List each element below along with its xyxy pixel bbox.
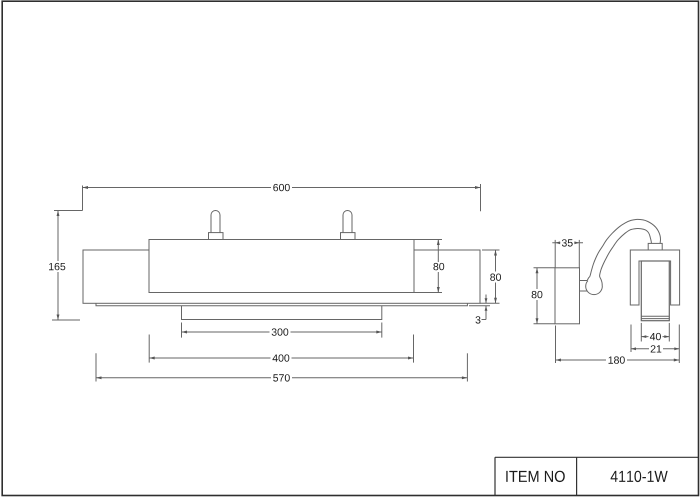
front shade box — [149, 240, 414, 293]
socket 2 base — [341, 233, 356, 240]
socket 1 stem — [211, 211, 220, 233]
dim 80 outer ext top — [482, 249, 500, 251]
dim 165 ext bottom — [52, 319, 80, 321]
title block — [495, 457, 699, 495]
dim 21 ext left — [630, 325, 632, 353]
dim 35 ext left — [554, 240, 556, 268]
dim 600 ext left — [82, 186, 84, 211]
label 400 — [273, 354, 290, 361]
dim 80 side ext bottom — [534, 323, 556, 325]
arrow 300 right — [376, 331, 382, 334]
arrowheads — [57, 186, 680, 379]
label 80 side — [532, 291, 543, 298]
dim 165 line — [57, 211, 59, 321]
dim 300 line — [182, 331, 382, 333]
arrow 80i down — [437, 287, 440, 293]
label 165 — [49, 263, 65, 270]
arrow 400 left — [149, 357, 155, 360]
arrow 165 down — [57, 315, 60, 321]
dim 180 line — [556, 359, 680, 361]
dim 600 ext right — [480, 184, 482, 211]
dim 3 arrow lines — [482, 295, 487, 320]
socket 2 stem — [343, 211, 352, 233]
wall plate — [555, 268, 580, 324]
label 600 — [273, 184, 290, 191]
dim 400 line — [149, 357, 413, 359]
ball joint — [586, 278, 603, 295]
dim 40 ext right — [668, 323, 670, 342]
arrow 80o down — [494, 298, 497, 304]
arrow 3 down — [485, 298, 488, 303]
label 21 — [651, 345, 662, 352]
dim 80 inner line — [437, 240, 439, 293]
arrow 165 up — [57, 211, 60, 217]
label 80 outer — [490, 274, 501, 281]
diffuser strip below backplate — [96, 303, 467, 305]
dim 400 ext left — [148, 335, 150, 363]
label ITEM NO — [506, 471, 565, 482]
joint neck — [580, 281, 589, 292]
dim 165 ext top — [54, 210, 83, 212]
dim 80 outer ext bottom — [480, 302, 500, 304]
dim 80 side ext top — [534, 267, 556, 269]
label 3 — [476, 316, 481, 323]
label 40 — [650, 333, 661, 340]
arrow 80s up — [536, 268, 539, 274]
arrow 35 left — [555, 241, 560, 244]
label 180 — [609, 356, 625, 363]
arm tube — [587, 219, 660, 284]
cylinder rim lines — [641, 316, 669, 318]
dim 80 inner ext top — [415, 239, 443, 241]
dim 21 ext right — [678, 325, 680, 364]
arrow 40 right — [664, 335, 669, 338]
arrow 600 left — [83, 186, 89, 189]
dim 570 ext right — [466, 353, 468, 381]
label 4110-1W — [611, 471, 668, 482]
wall backplate — [83, 250, 480, 303]
dim 40 line — [641, 336, 669, 338]
arrow 400 right — [408, 357, 414, 360]
arrow 300 left — [182, 331, 188, 334]
label 80 inner — [433, 263, 444, 270]
arrow 80i up — [437, 240, 440, 246]
dimension texts with white backing — [47, 182, 663, 383]
arrow 180 right — [674, 359, 680, 362]
arrow 35 right — [574, 241, 579, 244]
dim 570 line — [96, 377, 467, 379]
dim 570 ext left — [95, 353, 97, 381]
arrow 570 right — [462, 376, 468, 379]
dim 21 line — [631, 348, 679, 350]
label 570 — [273, 374, 290, 381]
arrow 80o up — [494, 250, 497, 256]
dim 40 ext left — [640, 323, 642, 342]
dim 400 ext right — [413, 335, 415, 363]
label 35 — [562, 239, 573, 246]
bottom center piece — [182, 306, 382, 320]
dim 300 ext right — [381, 323, 383, 338]
arrow 600 right — [475, 186, 481, 189]
head bracket — [630, 250, 679, 305]
dim 80 inner ext bottom — [415, 292, 443, 294]
arrow 40 left — [641, 335, 646, 338]
head stem — [648, 243, 662, 250]
dim 600 line — [83, 187, 481, 189]
head cylinder — [641, 261, 669, 321]
arrow 21 right — [674, 347, 679, 350]
socket 1 base — [209, 233, 224, 240]
dim 180 ext left — [555, 326, 557, 364]
dim 3 ext bottom — [469, 305, 490, 307]
arrow 180 left — [556, 359, 562, 362]
arrow 3 up — [485, 306, 488, 311]
dim 35 line — [552, 242, 583, 244]
dim 35 ext right — [578, 240, 580, 268]
dim 300 ext left — [181, 323, 183, 338]
arrow 80s down — [536, 318, 539, 324]
dim 80 side line — [536, 268, 538, 324]
dim 80 outer line — [495, 250, 497, 303]
arrow 570 left — [96, 376, 102, 379]
label 300 — [272, 328, 289, 335]
arrow 21 left — [631, 347, 636, 350]
